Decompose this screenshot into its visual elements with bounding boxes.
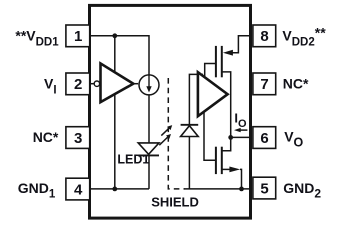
svg-text:5: 5 <box>260 180 268 197</box>
svg-text:NC*: NC* <box>33 129 59 145</box>
svg-text:8: 8 <box>260 28 268 45</box>
svg-text:2: 2 <box>74 76 82 93</box>
svg-text:4: 4 <box>74 181 83 198</box>
svg-text:3: 3 <box>74 130 82 147</box>
svg-text:LED1: LED1 <box>117 153 149 167</box>
svg-text:SHIELD: SHIELD <box>151 195 199 210</box>
svg-text:1: 1 <box>74 28 82 45</box>
svg-text:NC*: NC* <box>283 76 309 92</box>
svg-text:7: 7 <box>260 76 268 93</box>
svg-text:6: 6 <box>260 130 268 147</box>
